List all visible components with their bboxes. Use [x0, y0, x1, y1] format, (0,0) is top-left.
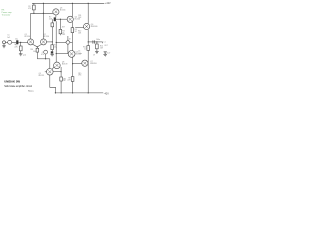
- svg-text:+42V: +42V: [105, 2, 111, 5]
- svg-text:2u2: 2u2: [7, 37, 10, 39]
- svg-text:BC556: BC556: [43, 36, 49, 38]
- wire zobel R stub: [87, 42, 89, 93]
- resistor R4: [71, 28, 74, 33]
- wire q6 emitter: [87, 30, 89, 42]
- svg-text:BD139: BD139: [39, 75, 45, 77]
- ground input shunt: [19, 54, 23, 56]
- transistor Q3: [53, 9, 59, 15]
- wire d2 collector from nfb: [49, 59, 51, 69]
- wire cap stub: [45, 54, 47, 59]
- capacitor C6 on output wire: [93, 40, 95, 43]
- junction tail node: [37, 46, 38, 47]
- junction rail Q7: [88, 92, 89, 93]
- junction zobel top: [96, 41, 97, 42]
- wire d1 emitter column: [60, 67, 62, 93]
- wire Q4 collector to rail: [71, 3, 73, 17]
- wire zobel cap column: [97, 42, 103, 52]
- svg-text:0R5: 0R5: [78, 75, 81, 77]
- svg-text:0R5: 0R5: [63, 78, 66, 80]
- junction rail D1: [61, 92, 62, 93]
- svg-text:10: 10: [84, 48, 86, 50]
- junction bus Q2 collector: [43, 13, 44, 14]
- wire R4 to VAS: [71, 33, 73, 51]
- resistor zobel: [87, 46, 90, 51]
- wire rail to Q2 collector: [42, 3, 44, 39]
- wire Q3 to Q4 base: [56, 18, 67, 20]
- svg-text:100u: 100u: [78, 53, 82, 55]
- junction rail D2: [55, 92, 56, 93]
- transistor D2 driver: [47, 69, 54, 76]
- ground q2 net: [50, 54, 54, 56]
- wire vas emitter column: [72, 57, 74, 93]
- junction R1 bottom bus: [33, 13, 34, 14]
- resistor R2 dark: [54, 17, 56, 21]
- capacitor C2 dark input: [16, 40, 18, 44]
- wire bias diamond column: [67, 36, 69, 54]
- svg-text:1K0: 1K0: [62, 34, 65, 36]
- capacitor C1 film: [8, 40, 12, 44]
- resistor zobel cap body: [96, 44, 99, 49]
- svg-text:BC556: BC556: [25, 36, 31, 38]
- bias trimmer diamond: [66, 40, 70, 45]
- svg-text:Nasca: Nasca: [28, 91, 35, 93]
- wire q6 collector: [87, 3, 89, 24]
- junction Q2 base: [52, 41, 53, 42]
- wire d2 collector right: [53, 71, 61, 73]
- wire bottom rail: [55, 92, 103, 94]
- svg-text:BC556: BC556: [60, 10, 66, 12]
- svg-text:UNIDAK 5W: UNIDAK 5W: [4, 79, 20, 83]
- svg-text:100n: 100n: [96, 39, 100, 41]
- wire d1 d2 link: [52, 67, 54, 70]
- resistor R1: [33, 5, 36, 10]
- svg-text:BD139: BD139: [62, 64, 68, 66]
- bottom left text: [4, 79, 32, 88]
- svg-text:MJE340: MJE340: [91, 26, 98, 28]
- wire input jack: [6, 41, 8, 43]
- wire Q4 emitter to R4: [71, 22, 73, 28]
- wire vas base: [56, 53, 68, 55]
- wire out cap stub: [104, 53, 106, 54]
- capacitor C7 output: [104, 52, 107, 53]
- junction R3 top: [60, 19, 61, 20]
- svg-text:C9: C9: [93, 54, 95, 56]
- transistor Q5 VAS: [68, 51, 75, 58]
- wire main mid vertical: [55, 21, 57, 62]
- resistor input shunt: [20, 46, 23, 51]
- wire d2 base stub: [45, 71, 47, 73]
- svg-text:L1: L1: [104, 42, 106, 44]
- svg-text:Transistor: Transistor: [2, 13, 11, 16]
- resistor D1 emitter: [60, 77, 63, 81]
- wire q2 base up: [51, 19, 53, 42]
- wire d2 emitter L to rail: [50, 75, 56, 93]
- junction Q7 base: [72, 62, 73, 65]
- wire horizontal to Q3: [31, 12, 54, 14]
- ground input jack: [2, 46, 6, 48]
- title green text: [2, 9, 13, 16]
- transistor Q2: [41, 39, 47, 45]
- transistor Q7 output: [82, 60, 88, 66]
- junction rail Q4: [72, 3, 73, 4]
- junction input node: [20, 42, 21, 43]
- wire output horizontal: [88, 41, 102, 43]
- junction VAS base: [56, 53, 57, 54]
- wire tail to RE: [36, 47, 38, 59]
- svg-text:47u: 47u: [41, 54, 44, 56]
- transistor Q4: [67, 16, 73, 22]
- svg-text:100: 100: [33, 51, 36, 53]
- wire input shunt R: [20, 42, 22, 53]
- svg-text:-42V: -42V: [104, 92, 109, 95]
- svg-text:MJE350: MJE350: [90, 63, 97, 65]
- wire nfb node to diamond: [56, 41, 65, 43]
- resistor R5: [51, 45, 53, 50]
- transistor Q1: [28, 39, 34, 45]
- ground output: [103, 54, 107, 56]
- ground zobel: [95, 52, 99, 54]
- junction nfb cap: [45, 58, 46, 59]
- transistor D1 driver: [54, 62, 61, 69]
- junction rail VAS: [72, 92, 73, 93]
- wire tail emitters: [33, 44, 42, 47]
- capacitor C5 dark: [51, 51, 53, 53]
- input jack: [3, 41, 6, 44]
- resistor R3: [59, 29, 62, 33]
- svg-text:Solid state amplifier circuit: Solid state amplifier circuit: [4, 85, 32, 88]
- junction rail Q6: [88, 3, 89, 4]
- junction D2 collector: [61, 71, 62, 72]
- svg-text:4u7: 4u7: [107, 53, 110, 55]
- wire collector bus Q1: [30, 13, 32, 39]
- wire input cap to cap: [12, 41, 16, 43]
- wire top rail: [32, 2, 104, 4]
- resistor Q2 bias upper: [51, 23, 54, 27]
- wire q2 base down: [51, 42, 53, 51]
- svg-text:10u: 10u: [15, 39, 18, 41]
- wire diamond right link: [70, 41, 72, 43]
- wire Q3 emitter: [55, 15, 57, 18]
- wire q2 base: [46, 41, 52, 43]
- resistor VAS emitter: [71, 77, 74, 82]
- junction node A: [56, 42, 57, 43]
- svg-text:gnd: gnd: [23, 55, 26, 57]
- wire nfb horizontal: [37, 58, 50, 60]
- wire jack ground stub: [3, 44, 5, 46]
- wire input to q1 base: [18, 41, 27, 43]
- capacitor C3 electrolytic nfb: [44, 50, 48, 54]
- transistor Q6 output: [84, 23, 90, 29]
- junction output node: [88, 41, 89, 42]
- resistor RE tail: [36, 48, 39, 52]
- wire q6 base: [75, 26, 83, 28]
- wire q7 base: [73, 63, 82, 65]
- wire R3 drop: [59, 19, 61, 35]
- svg-text:OUT: OUT: [104, 45, 108, 47]
- junction rail Q2: [43, 3, 44, 4]
- wire R1 stub: [33, 3, 35, 13]
- svg-text:4K7: 4K7: [62, 26, 65, 28]
